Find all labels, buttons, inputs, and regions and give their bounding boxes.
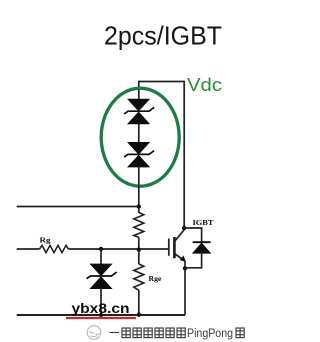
svg-text:Rge: Rge bbox=[149, 274, 163, 283]
svg-text:ybx8.cn: ybx8.cn bbox=[72, 301, 130, 316]
node junction rail/D3 bbox=[99, 313, 103, 317]
wire top rail bbox=[17, 206, 139, 208]
node emitter junction bbox=[183, 266, 187, 270]
wire R1 to gate node bbox=[138, 237, 140, 249]
wire TVS branch top bbox=[138, 81, 140, 101]
svg-text:2pcs/IGBT: 2pcs/IGBT bbox=[104, 21, 222, 51]
collector lead bbox=[175, 229, 184, 240]
resistor Rg bbox=[40, 245, 69, 252]
wire gate rail right bbox=[69, 248, 169, 250]
resistor R1 (upper gate divider) bbox=[134, 213, 144, 238]
wire diode branch bottom bbox=[185, 253, 202, 268]
svg-text:Vdc: Vdc bbox=[187, 74, 222, 95]
node junction gate/Rge bbox=[137, 247, 141, 251]
wire below D2 to node bbox=[138, 166, 140, 213]
green highlight ellipse around D1+D2 bbox=[101, 88, 179, 186]
wire top (Vdc rail) bbox=[139, 81, 184, 83]
transistor Q1 IGBT bbox=[169, 229, 186, 262]
wire bottom rail bbox=[17, 314, 185, 316]
node collector junction bbox=[182, 226, 186, 230]
wire gate rail left bbox=[17, 248, 40, 250]
TVS diode D2 (bidirectional, in ellipse) bbox=[124, 142, 154, 167]
wire Rge to bottom rail bbox=[138, 290, 140, 315]
node junction top-rail bbox=[137, 204, 141, 208]
watermark red underline bbox=[66, 317, 136, 319]
svg-text:Rg: Rg bbox=[40, 237, 52, 245]
wire right vertical (collector feed) bbox=[183, 81, 185, 228]
emitter arrow bbox=[180, 256, 186, 262]
node junction rail/Rge bbox=[137, 313, 141, 317]
TVS diode D1 (bidirectional, in ellipse) bbox=[124, 99, 154, 124]
node junction gate/TVS3 bbox=[99, 247, 103, 251]
footer logo (pingpong emblem) bbox=[87, 326, 101, 340]
emitter lead bbox=[175, 254, 185, 261]
diode D4 freewheel bbox=[193, 242, 211, 253]
wire D3 to bottom rail bbox=[100, 288, 102, 315]
wire emitter down bbox=[184, 261, 186, 316]
TVS diode D3 (gate clamp) bbox=[87, 264, 117, 289]
body bar bbox=[173, 237, 176, 258]
wire gate node to Rge bbox=[138, 249, 140, 264]
svg-text:PingPong: PingPong bbox=[187, 328, 233, 340]
wire diode branch top bbox=[184, 228, 201, 242]
footer text: 一个小小可爱的PingPong球 (CJK simulated) bbox=[110, 328, 186, 338]
svg-text:IGBT: IGBT bbox=[193, 218, 215, 227]
resistor Rge bbox=[134, 264, 144, 290]
wire TVS3 branch bbox=[100, 249, 102, 265]
wire between D1 and D2 bbox=[138, 123, 140, 144]
gate bar bbox=[168, 239, 170, 256]
